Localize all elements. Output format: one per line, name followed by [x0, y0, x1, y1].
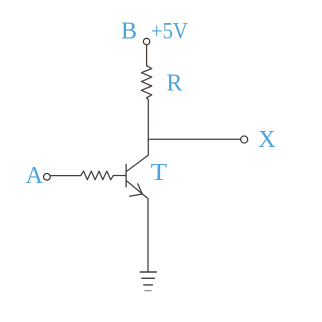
transistor T base bar [125, 164, 127, 187]
transistor T emitter lead with wire to ground [127, 181, 148, 272]
svg-text:A: A [26, 163, 44, 189]
terminal X [241, 136, 248, 143]
terminal B [143, 38, 149, 44]
transistor T collector lead [127, 155, 149, 171]
terminal A [44, 173, 51, 180]
wire B to resistor R [146, 45, 148, 65]
resistor R [141, 66, 151, 98]
wire node to terminal X [148, 138, 240, 140]
svg-text:T: T [151, 160, 168, 186]
wire resistor R to collector junction [147, 98, 149, 155]
transistor T emitter arrow [130, 184, 143, 197]
svg-text:+5V: +5V [151, 18, 188, 43]
svg-text:X: X [258, 127, 275, 153]
ground [140, 272, 156, 291]
svg-text:R: R [166, 70, 182, 96]
svg-text:B: B [121, 19, 137, 45]
wire base resistor to transistor base [113, 175, 125, 177]
wire terminal A to base resistor [51, 175, 81, 177]
base resistor [81, 171, 114, 180]
